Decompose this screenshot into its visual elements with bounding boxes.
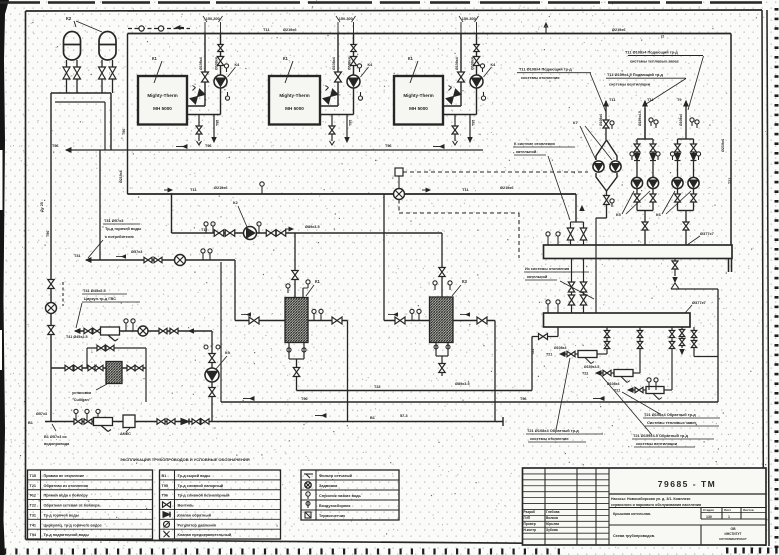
- svg-text:Крышная котельная.: Крышная котельная.: [613, 512, 651, 516]
- svg-text:Прямая не отопление: Прямая не отопление: [44, 474, 85, 478]
- svg-text:Спускник низких водь: Спускник низких водь: [319, 494, 362, 498]
- svg-text:Ø377x7: Ø377x7: [692, 300, 706, 305]
- svg-text:Т94: Т94: [30, 533, 37, 537]
- svg-text:Т12: Т12: [201, 228, 208, 232]
- svg-text:Т11: Т11: [462, 187, 469, 192]
- svg-text:Т12: Т12: [30, 494, 37, 498]
- svg-text:MH 5000: MH 5000: [285, 106, 304, 111]
- svg-text:Ø57x3: Ø57x3: [131, 250, 142, 254]
- svg-text:(2: (2: [661, 35, 664, 39]
- svg-text:Обратная сетевая от бойлера: Обратная сетевая от бойлера: [44, 504, 101, 508]
- svg-text:Т21 Ø159x4.5 Обратный тр-д: Т21 Ø159x4.5 Обратный тр-д: [633, 433, 689, 438]
- svg-text:Юрьева: Юрьева: [546, 522, 559, 526]
- svg-text:MH 5000: MH 5000: [153, 106, 172, 111]
- svg-text:Т21: Т21: [728, 178, 732, 184]
- svg-text:КОТЛОМИНПРОЕКТ: КОТЛОМИНПРОЕКТ: [719, 537, 747, 541]
- svg-text:Схема трубопроводов.: Схема трубопроводов.: [613, 534, 655, 538]
- svg-text:Ø108x4: Ø108x4: [348, 57, 352, 70]
- svg-text:установка: установка: [72, 391, 92, 395]
- svg-text:79685 - ТМ: 79685 - ТМ: [658, 479, 716, 489]
- svg-text:Тр-д сливной безнапорный: Тр-д сливной безнапорный: [178, 494, 231, 498]
- svg-text:К2: К2: [233, 200, 238, 205]
- svg-text:системы тепловых завес: системы тепловых завес: [630, 59, 680, 64]
- svg-text:Регулятор давления: Регулятор давления: [178, 523, 216, 527]
- svg-text:Т22: Т22: [374, 385, 381, 389]
- svg-text:В1: В1: [370, 416, 375, 420]
- svg-text:Т11: Т11: [609, 97, 616, 102]
- svg-text:Ø219x6: Ø219x6: [283, 28, 297, 32]
- svg-text:Т31: Т31: [74, 254, 81, 258]
- svg-text:К1: К1: [283, 56, 289, 61]
- svg-text:Т21: Т21: [531, 349, 535, 355]
- svg-text:Н.контр: Н.контр: [524, 528, 537, 532]
- svg-text:Термосчетчик: Термосчетчик: [319, 514, 345, 518]
- svg-text:Разраб: Разраб: [524, 510, 536, 514]
- svg-text:Задвижка: Задвижка: [319, 484, 338, 488]
- svg-text:Фильтр сетчатый: Фильтр сетчатый: [319, 474, 353, 478]
- svg-text:Т95: Т95: [216, 120, 220, 126]
- svg-text:150-300: 150-300: [206, 17, 220, 21]
- svg-text:котельной: котельной: [516, 149, 537, 154]
- svg-text:Mighty-Therm: Mighty-Therm: [147, 93, 177, 98]
- svg-text:К системе отопления: К системе отопления: [514, 141, 555, 146]
- svg-text:Тр-д горячей воды: Тр-д горячей воды: [44, 513, 79, 517]
- svg-text:Тр-д подпиточной воды: Тр-д подпиточной воды: [44, 533, 89, 537]
- svg-text:Ø219x6: Ø219x6: [721, 139, 725, 152]
- svg-text:Т96: Т96: [520, 397, 527, 401]
- svg-text:Ø108x4: Ø108x4: [554, 346, 567, 350]
- svg-text:ЭКСПЛИКАЦИЯ ТРУБОПРОВОДОВ И УС: ЭКСПЛИКАЦИЯ ТРУБОПРОВОДОВ И УСЛОВНЫЕ ОБО…: [120, 457, 250, 462]
- svg-text:Клапан обратный: Клапан обратный: [178, 513, 212, 517]
- svg-text:Т95: Т95: [349, 120, 353, 126]
- svg-text:1: 1: [728, 515, 730, 519]
- svg-text:К4: К4: [491, 62, 496, 67]
- svg-text:Воздухосборник: Воздухосборник: [319, 504, 350, 508]
- svg-text:котельной: котельной: [527, 274, 548, 279]
- svg-text:Ø108x4: Ø108x4: [332, 57, 336, 70]
- svg-text:Зубова: Зубова: [546, 528, 558, 532]
- svg-text:Ø219x6: Ø219x6: [214, 186, 228, 190]
- svg-text:Mighty-Therm: Mighty-Therm: [403, 93, 433, 98]
- svg-text:В1: В1: [162, 474, 167, 478]
- svg-text:Т96: Т96: [205, 144, 212, 148]
- svg-text:MH 5000: MH 5000: [409, 106, 428, 111]
- svg-text:Mighty-Therm: Mighty-Therm: [279, 93, 309, 98]
- svg-text:Т21: Т21: [30, 484, 37, 488]
- svg-text:Ø108x4: Ø108x4: [455, 57, 459, 70]
- svg-text:Т11: Т11: [263, 27, 270, 32]
- svg-text:Ø219x6: Ø219x6: [119, 170, 123, 183]
- svg-text:Т96: Т96: [301, 397, 308, 401]
- svg-text:Лист: Лист: [724, 508, 732, 512]
- svg-text:Т11 Ø159x4.5 Подающий тр-д: Т11 Ø159x4.5 Подающий тр-д: [607, 72, 664, 77]
- svg-text:Ø57x3: Ø57x3: [36, 412, 47, 416]
- svg-text:Ø377x7: Ø377x7: [700, 231, 714, 236]
- svg-text:Системы тепловых завес: Системы тепловых завес: [647, 420, 697, 425]
- svg-text:Ø108x4: Ø108x4: [199, 57, 203, 70]
- svg-text:Листов: Листов: [743, 508, 754, 512]
- svg-text:ИНСТИТУТ: ИНСТИТУТ: [725, 532, 742, 536]
- svg-text:Т21: Т21: [582, 372, 588, 376]
- svg-text:Обратная из отопления: Обратная из отопления: [44, 484, 89, 488]
- svg-text:Тр-д сырой воды: Тр-д сырой воды: [178, 474, 211, 478]
- svg-text:Т96: Т96: [46, 231, 50, 237]
- svg-text:К6: К6: [656, 212, 661, 217]
- svg-text:В1: В1: [28, 421, 33, 425]
- svg-text:Т22: Т22: [30, 504, 37, 508]
- svg-text:Клапан предохранительный: Клапан предохранительный: [178, 533, 232, 537]
- svg-text:Ø108x4: Ø108x4: [679, 114, 683, 126]
- svg-text:Из системы отопления: Из системы отопления: [525, 266, 569, 271]
- svg-text:К7: К7: [573, 120, 578, 125]
- svg-text:К4: К4: [235, 62, 240, 67]
- svg-text:Тр-д горячей воды: Тр-д горячей воды: [105, 226, 142, 231]
- svg-text:К1: К1: [315, 279, 321, 284]
- svg-text:К1: К1: [152, 56, 158, 61]
- svg-text:57-3: 57-3: [400, 414, 408, 418]
- svg-text:Т21 Ø108x4 Обратный тр-д: Т21 Ø108x4 Обратный тр-д: [527, 428, 579, 433]
- svg-text:"Culligan": "Culligan": [72, 398, 91, 402]
- svg-text:Т96: Т96: [52, 144, 59, 148]
- svg-text:водопровода: водопровода: [44, 442, 70, 446]
- svg-text:Ø159x4.5: Ø159x4.5: [638, 111, 642, 126]
- svg-text:Ø89x3.5: Ø89x3.5: [305, 225, 320, 229]
- svg-text:К2: К2: [66, 16, 72, 21]
- svg-text:Прямая вода к бойлеру: Прямая вода к бойлеру: [44, 494, 89, 498]
- svg-text:К4: К4: [368, 62, 373, 67]
- svg-text:Ду 25: Ду 25: [40, 202, 44, 212]
- svg-text:Ø219x6: Ø219x6: [612, 28, 626, 32]
- svg-text:Т31 Ø57x3: Т31 Ø57x3: [104, 218, 124, 223]
- svg-text:Т11 Ø108x4 Подающий тр-д: Т11 Ø108x4 Подающий тр-д: [519, 67, 572, 72]
- svg-text:системы вентиляции: системы вентиляции: [609, 82, 651, 87]
- svg-text:Т31: Т31: [30, 513, 37, 517]
- svg-text:Ø159x4.5: Ø159x4.5: [584, 365, 599, 369]
- svg-text:Глебова: Глебова: [546, 510, 560, 514]
- svg-text:системы вентиляции: системы вентиляции: [636, 441, 678, 446]
- svg-text:ΔМЕС: ΔМЕС: [120, 432, 131, 436]
- svg-text:Провер: Провер: [524, 522, 536, 526]
- svg-text:Тр-д сливной напорный: Тр-д сливной напорный: [178, 484, 224, 488]
- svg-text:Ø219x6: Ø219x6: [500, 186, 514, 190]
- svg-text:Волков: Волков: [546, 516, 558, 520]
- svg-text:Циркул.тр-д ГВС: Циркул.тр-д ГВС: [84, 296, 116, 301]
- svg-text:Т96: Т96: [385, 144, 392, 148]
- svg-text:Т95: Т95: [472, 120, 476, 126]
- svg-text:Т41 Ø45x2.5: Т41 Ø45x2.5: [66, 335, 88, 339]
- svg-text:Стадия: Стадия: [703, 508, 714, 512]
- svg-text:Насосы: Новосибирская ул. д. 3: Насосы: Новосибирская ул. д. 3/1. Компле…: [611, 497, 690, 501]
- svg-text:Т41: Т41: [30, 523, 37, 527]
- svg-text:150-300: 150-300: [462, 17, 476, 21]
- svg-text:системы отопления: системы отопления: [521, 75, 559, 80]
- svg-text:Т11: Т11: [190, 187, 197, 192]
- svg-text:Т95: Т95: [162, 484, 169, 488]
- svg-text:ГИП: ГИП: [524, 516, 531, 520]
- svg-text:системы отопления: системы отопления: [530, 436, 568, 441]
- svg-text:150-300: 150-300: [339, 17, 353, 21]
- svg-text:Т15: Т15: [30, 474, 37, 478]
- svg-text:Т21 Ø108x4 Обратный тр-д: Т21 Ø108x4 Обратный тр-д: [644, 412, 696, 417]
- svg-text:Ø108x4: Ø108x4: [471, 57, 475, 70]
- svg-text:К3: К3: [462, 279, 468, 284]
- svg-text:В1 Ø57x3 из: В1 Ø57x3 из: [44, 435, 67, 439]
- svg-text:Т96: Т96: [122, 129, 126, 135]
- svg-text:130: 130: [706, 515, 712, 519]
- svg-text:Т11 Ø108x4 Подающий тр-д: Т11 Ø108x4 Подающий тр-д: [625, 50, 678, 55]
- svg-text:К1: К1: [408, 56, 414, 61]
- svg-text:Циркуляц. тр-д горячего водос: Циркуляц. тр-д горячего водос: [44, 523, 102, 527]
- svg-text:к потребителю: к потребителю: [105, 234, 134, 239]
- svg-text:Ø89x3.5: Ø89x3.5: [455, 382, 470, 386]
- svg-text:Т41 Ø45x2.5: Т41 Ø45x2.5: [83, 288, 107, 293]
- svg-text:К9: К9: [225, 350, 230, 355]
- svg-text:ОВ: ОВ: [730, 527, 736, 531]
- svg-text:К5: К5: [616, 212, 621, 217]
- svg-text:Ø108x4: Ø108x4: [215, 57, 219, 70]
- svg-text:сервисного и паркового обслужи: сервисного и паркового обслуживания насе…: [611, 503, 701, 507]
- svg-text:Т21: Т21: [546, 353, 552, 357]
- svg-text:Т96: Т96: [162, 494, 169, 498]
- svg-text:Вентиль: Вентиль: [178, 504, 195, 508]
